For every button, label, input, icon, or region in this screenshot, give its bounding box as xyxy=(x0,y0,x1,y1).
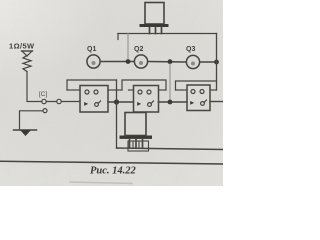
stub wire K1 top-left xyxy=(67,89,80,91)
figure rule xyxy=(0,161,223,164)
resistor R1 xyxy=(22,51,33,72)
stub wire K2 top-right xyxy=(159,89,167,91)
junction node E xyxy=(114,99,119,104)
socket outline at VT2 pins xyxy=(128,141,149,151)
transistor package VT2 flange xyxy=(120,136,153,139)
stub wire K1 top-right xyxy=(108,89,122,91)
svg-text:Рис. 14.22: Рис. 14.22 xyxy=(90,166,137,177)
stub wire K3 top-right xyxy=(210,89,217,91)
long vertical wire node E down to bottom rail xyxy=(116,80,118,148)
transistor package VT1 flange xyxy=(140,24,169,27)
ground stub pin circle xyxy=(43,109,47,113)
riser wire node A to rail xyxy=(127,34,129,60)
bus wire segment K3 to edge xyxy=(210,101,223,103)
junction node B xyxy=(168,59,173,64)
stub wire K3 top-left xyxy=(176,89,188,91)
connector pin circle left xyxy=(42,99,46,103)
svg-text:Q3: Q3 xyxy=(186,46,195,53)
wire resistor to node C xyxy=(27,72,80,102)
bus wire segment K1 to K2 xyxy=(108,101,134,103)
transistor package VT1 body xyxy=(145,3,164,25)
bridge wire over K3 xyxy=(176,81,217,90)
lamp Q2 xyxy=(134,55,147,68)
top supply rail wire xyxy=(118,33,217,35)
wire Q3 to right riser xyxy=(200,61,217,63)
paper smudge bottom xyxy=(70,182,132,184)
junction node F xyxy=(168,100,173,105)
svg-text:[C]: [C] xyxy=(39,91,48,98)
stub wire K2 top-left xyxy=(129,89,134,91)
bottom rail wire xyxy=(117,148,224,150)
wire Q2 to Q3 xyxy=(148,61,186,64)
box K1 xyxy=(80,86,108,113)
transistor package VT2 pins xyxy=(130,139,143,148)
bus wire segment K2 to K3 xyxy=(159,101,188,103)
junction node A xyxy=(126,59,131,64)
box K3 xyxy=(187,85,210,111)
lamp Q1 xyxy=(87,55,100,68)
bridge wire over K2 xyxy=(122,80,166,90)
svg-text:1Ω/5W: 1Ω/5W xyxy=(9,42,35,51)
transistor package VT2 body xyxy=(125,113,146,136)
lamp Q3 xyxy=(186,55,199,68)
svg-text:Q2: Q2 xyxy=(134,46,143,53)
bridge wire over K1 xyxy=(67,80,117,90)
ground xyxy=(14,130,37,136)
right riser wire rail to Q3 and box K3 xyxy=(216,34,218,91)
wire Q1 to Q2 xyxy=(100,61,134,63)
transistor package VT1 pins xyxy=(150,27,162,34)
connector pin circle right xyxy=(57,99,61,103)
rail end tick xyxy=(117,34,119,40)
svg-text:Q1: Q1 xyxy=(87,46,96,53)
drop wire node B to bus xyxy=(169,64,171,100)
junction node D xyxy=(214,60,219,65)
ground stub wire xyxy=(20,111,44,130)
box K2 xyxy=(134,86,159,113)
